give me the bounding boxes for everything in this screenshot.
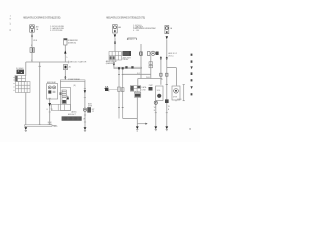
dark box label [123,56,132,61]
connector pair on B1 [160,57,162,60]
right margin symbol column [190,54,192,96]
svg-text:(S): (S) [73,85,76,87]
connector pair marks [64,76,66,79]
pair connector boxes [118,87,124,92]
svg-text:W: W [154,107,156,109]
wire web: h y78.5 [138,78,162,80]
arrow on relay wire [48,103,51,106]
pair lower dashes [118,107,124,109]
relay K1 grid [109,52,122,61]
junction block grid 1 [15,76,26,82]
wire F1 down to bus [31,32,33,62]
dark box left of box1 [149,87,153,91]
fuse F3 [113,25,118,33]
svg-text:W-B: W-B [33,40,38,42]
connector arrows below F1 [31,34,33,38]
connector row: circle [151,51,155,55]
wire web: v x176.4 [175,68,177,86]
fuse F2 (inline, left) [30,48,34,53]
wire relay down to ground bus [49,99,51,125]
fuse F4 wire down [166,39,168,126]
pump motor wire (x85) [84,81,86,108]
svg-text:A2: A2 [69,66,71,69]
ground G3 [136,126,139,131]
tick marks col1 [155,112,157,114]
svg-text:3 : STOP FUSE: 3 : STOP FUSE [50,30,63,32]
connector row label [168,52,177,57]
fusible link FL1 (dark box) [17,70,25,74]
up arrow on wire [64,50,66,53]
corner down left [59,81,61,87]
bus line (left page upper) [26,61,68,63]
wire stub with tick [39,62,41,125]
ground G1 [24,126,27,131]
tick [49,111,51,113]
arrow below F4 [166,36,168,39]
stacked connector boxes on x150.8 [149,62,153,65]
down arrow [84,90,86,93]
pump motor M1 [83,108,86,111]
motor label above [88,102,93,107]
stub vertical x183.7 [183,85,185,101]
pair top connectors [118,67,124,69]
tick [84,97,86,99]
relay K1 dark box [123,51,132,56]
connector box B1 below bus [64,65,68,70]
svg-text:SOLENOID RELAY: SOLENOID RELAY [68,78,81,81]
wire web: h y74.3 [123,73,151,75]
wire drop to junction block [25,62,27,76]
junction blip on inner box edge [60,92,62,95]
wire web: h y67.6 right [167,67,177,69]
right legend text block [133,25,156,32]
solenoid S2 (dark) [62,98,66,104]
tick [84,88,86,90]
svg-text:W: W [168,106,170,108]
grid margin labels [13,77,14,91]
end tick [161,79,163,81]
connector blobs on line [125,66,133,68]
wire B1 vertical [160,56,162,85]
noise suppressor (sun) [104,86,117,91]
fuse F1 (left page top) [30,25,35,32]
svg-text:(IGNITION): (IGNITION) [68,42,76,44]
diode D1 [67,95,69,99]
svg-text:GND: GND [53,126,58,128]
tick [84,114,86,116]
svg-text:ABS ACTUATOR: ABS ACTUATOR [69,61,86,64]
grid label [106,60,118,65]
shielded pair verticals [119,69,123,118]
svg-text:RELAY: RELAY [123,58,130,61]
wire web: v x150.8 [150,56,152,79]
plus junction [166,84,168,86]
svg-text:(ABS): (ABS) [71,110,76,113]
connector box on B1 [160,73,162,76]
connector circle on box1 wire [154,101,157,104]
noise filter label [68,40,79,44]
svg-text:J/B NO.2: J/B NO.2 [127,39,135,41]
ground G2 [84,127,87,131]
svg-text:ABS (ANTI-LOCK BRAKE SYSTEM) (: ABS (ANTI-LOCK BRAKE SYSTEM) (2JZ-GE) [23,16,61,19]
connector pair on F3 wire [114,41,116,44]
wire B1 down to line2 [64,70,66,80]
wire grid down / corner right [113,62,115,67]
pair bottom joiner [123,118,138,120]
wire text column 2 [168,106,170,111]
svg-text:MTR: MTR [173,96,178,98]
grid B [130,86,140,92]
wire F3 down [114,38,116,52]
left margin marker stack [10,16,12,31]
svg-text:ABS (ANTI-LOCK BRAKE SYSTEM) (: ABS (ANTI-LOCK BRAKE SYSTEM) (2JZ-GTE) [106,16,145,19]
svg-text:(SOL): (SOL) [168,55,173,57]
junction block grid 2 [16,82,31,93]
connector on x141 [140,52,143,56]
svg-text:SOL: SOL [157,90,161,92]
noise filter N1 [64,38,68,45]
connector dark box on F4 wire low [165,99,169,103]
ground G5 [165,126,168,130]
svg-text:FL MAIN: FL MAIN [16,67,24,70]
svg-text:W: W [83,119,85,121]
connector pair on F4 wire [166,57,168,60]
svg-text:PMP: PMP [149,85,154,87]
solenoid S1 (striped) [62,90,66,97]
ground G4 [154,126,157,130]
svg-text:ABS ACT: ABS ACT [68,113,77,116]
wire N1 down to bus [64,45,66,62]
left tiny text pair [48,122,53,126]
connector row: O connector [139,52,142,56]
box2 bottom marks [176,99,182,102]
connector row: box [148,52,151,56]
line2 horizontal bar [60,80,85,82]
bracket connector [128,38,137,40]
component C (dark) [135,92,141,97]
box1 wire down [155,101,157,127]
dark label bar [62,116,82,120]
bus end bar [67,61,69,63]
fuse F4 [165,26,169,34]
arrow to right [137,123,147,125]
ground bus bottom left (bar) [25,125,52,127]
actuator inner box [61,88,71,111]
actuator pin row [51,104,70,110]
long vertical x141 [140,44,142,79]
motor side label [92,109,96,113]
box2 (pump motor) [172,86,180,100]
left legend text block [50,26,65,32]
pair mid dashes [118,73,124,75]
connector box on F4 wire [166,73,168,76]
fuse F1 value label [36,26,39,31]
box1 (solenoid block) [156,86,163,101]
svg-text:12: 12 [92,111,94,113]
motor side box [87,107,91,112]
wire motor down to ground [84,111,86,127]
wire grid2 down to ground bus [25,93,27,125]
wire text column 1 [154,107,156,112]
relay R1 box [47,81,58,99]
svg-text:4 : J/B: 4 : J/B [133,30,140,32]
svg-text:LINK: LINK [142,89,147,91]
arrow below F3 [114,34,116,37]
bus junction ticks [39,124,51,126]
connector row: dark box [156,52,159,56]
tick marks col2 [166,112,168,114]
wire C down to ground [136,97,138,126]
grid B label [142,86,147,91]
